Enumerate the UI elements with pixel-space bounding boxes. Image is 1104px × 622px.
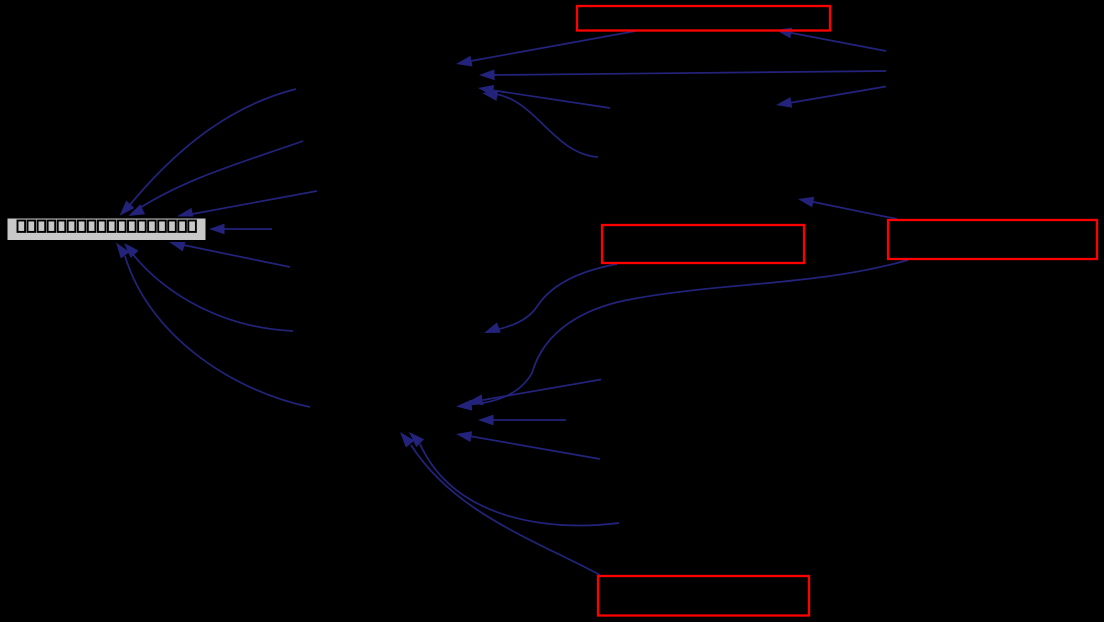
arrowhead E10 (776, 28, 792, 39)
node text: tofu glyph row in central node (18, 221, 196, 232)
arrowhead E16 (484, 322, 501, 333)
wire E22: long curved edge from bottom red box (411, 445, 600, 575)
arrowhead E17 (456, 400, 472, 411)
wire E9: long horizontal edge from right node to top-left node (492, 71, 886, 75)
arrowhead E12 (478, 85, 494, 96)
arrowhead E4 (209, 224, 225, 235)
wire E4: horizontal edge into central node right (218, 228, 272, 230)
node R3: right red box (888, 220, 1097, 259)
arrowhead E15 (798, 197, 814, 208)
arrowhead E22 (400, 432, 414, 448)
wire E6: curved edge into central node bottom (127, 247, 293, 331)
arrowhead E19 (478, 415, 494, 426)
arrowhead E5 (169, 241, 186, 252)
arrowhead E21 (409, 432, 424, 447)
wire E8: edge from top red box to top-left node (468, 31, 636, 62)
wire E19: horizontal edge to lower-middle node (491, 419, 566, 421)
wire E13: curved edge to top-left node (486, 93, 598, 157)
node R1: top red box (577, 6, 830, 31)
arrowhead E11 (776, 97, 792, 108)
node R4: bottom red box (598, 576, 809, 616)
arrowhead E9 (479, 69, 495, 80)
arrowhead E13 (482, 90, 498, 101)
wire E1: curved edge into central node top (124, 89, 296, 212)
wire E21: curved edge to lower-left node (420, 444, 619, 525)
wire E3: straight edge into central node top-right (187, 191, 317, 215)
node R2: middle red box (602, 225, 804, 263)
wire E20: straight edge to lower-left node (469, 436, 600, 459)
wire E11: edge from right node to middle invisible node (789, 87, 886, 104)
wire E18: straight edge to lower-middle node (483, 380, 601, 401)
arrowhead E6 (124, 243, 139, 258)
arrowhead E20 (456, 431, 472, 442)
arrowhead E18 (467, 394, 484, 405)
arrowhead E8 (456, 56, 473, 67)
arrowhead E2 (128, 204, 145, 216)
wire E17: long S-curve from right red box (461, 260, 908, 405)
arrowhead E7 (116, 243, 130, 259)
arrowhead E1 (120, 201, 135, 216)
wire E10: edge from right node to top red box (789, 33, 886, 52)
wire E16: curved edge from middle red box (492, 264, 617, 331)
arrowhead E3 (177, 208, 194, 219)
wire E12: edge from middle invisible node to top-left node (491, 90, 610, 108)
wire E2: curved edge into central node top (132, 141, 303, 213)
wire E7: long curved edge into central node bottom (125, 256, 310, 407)
wire E5: straight edge into central node bottom-right (176, 244, 290, 268)
wire E15: edge from right red box to invisible node (811, 202, 897, 220)
node: central grey node box (7, 218, 207, 242)
